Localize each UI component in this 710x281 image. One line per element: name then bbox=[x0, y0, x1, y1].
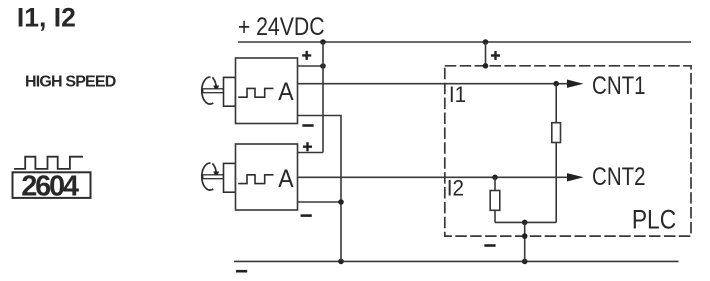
wire R2 upper lead from I2 node bbox=[494, 177, 496, 190]
node junction dot top rail / encoder supply bbox=[320, 39, 326, 45]
wire bottom return rail bbox=[234, 260, 679, 262]
encoder E2 rotation arrowhead bbox=[213, 172, 219, 179]
svg-text:CNT1: CNT1 bbox=[592, 71, 646, 99]
resistor R2 bbox=[490, 191, 500, 211]
wire encoder U2 minus stub bbox=[298, 201, 342, 203]
wire +24VDC top rail bbox=[238, 41, 691, 43]
resistor R1 bbox=[552, 123, 561, 143]
wire supply drop from top rail to U1/U2 plus bbox=[322, 42, 324, 153]
encoder E1 mounting block bbox=[224, 77, 236, 106]
encoder U2 pulse output symbol bbox=[238, 175, 273, 184]
svg-text:2604: 2604 bbox=[21, 171, 79, 203]
encoder E1 shaft rotation symbol bbox=[202, 77, 216, 104]
wire encoder U2 plus stub to supply drop bbox=[298, 152, 324, 154]
CNT1 label bbox=[592, 71, 646, 99]
encoder E1 rotation arrowhead bbox=[213, 86, 219, 93]
node junction dot I1 / R1 bbox=[553, 81, 559, 87]
wire U1 channel A output to PLC input I1 bbox=[298, 83, 570, 85]
wire U2 channel A output to PLC input I2 bbox=[298, 176, 570, 178]
arrowhead CNT1 bbox=[567, 80, 584, 88]
svg-text:I1, I2: I1, I2 bbox=[17, 3, 76, 33]
svg-text:HIGH SPEED: HIGH SPEED bbox=[25, 74, 116, 91]
minus label encoder U1 bbox=[302, 124, 313, 127]
svg-text:A: A bbox=[278, 78, 293, 106]
wire link R1/R2 bottoms bbox=[495, 221, 556, 223]
plus label encoder U2 supply bbox=[303, 142, 312, 151]
encoder E2 mounting block bbox=[224, 163, 236, 192]
encoder E2 shaft rotation symbol bbox=[202, 163, 216, 190]
input I2 label bbox=[447, 175, 464, 201]
svg-text:CNT2: CNT2 bbox=[592, 162, 646, 190]
PLC dashed enclosure bbox=[445, 66, 691, 236]
2604 module box bbox=[13, 172, 91, 198]
svg-text:A: A bbox=[278, 165, 293, 193]
+24VDC supply label bbox=[238, 13, 325, 41]
node junction dot U2 minus / return drop bbox=[338, 199, 344, 205]
node junction dot return drop at dashed edge bbox=[522, 233, 528, 239]
CNT2 label bbox=[592, 162, 646, 190]
node junction dot link wire / return drop bbox=[522, 220, 528, 226]
node junction dot I2 / R2 bbox=[492, 175, 498, 181]
svg-text:I2: I2 bbox=[447, 175, 464, 201]
wire PLC supply drop from top rail bbox=[485, 42, 487, 66]
encoder U2 channel A label bbox=[278, 165, 293, 193]
wire PLC return drop to bottom rail bbox=[524, 222, 526, 261]
svg-text:I1: I1 bbox=[449, 81, 466, 107]
encoder U2 body box bbox=[236, 144, 298, 210]
wire encoder U1 minus stub bbox=[298, 116, 342, 262]
encoder E2 shaft bar bbox=[203, 175, 224, 179]
encoder U1 channel A label bbox=[278, 78, 293, 106]
svg-text:+ 24VDC: + 24VDC bbox=[238, 13, 325, 41]
minus label PLC return bbox=[484, 244, 495, 247]
arrowhead CNT2 bbox=[567, 173, 584, 181]
node junction dot bottom rail / PLC return bbox=[522, 259, 528, 265]
wire R2 lower lead down to link wire bbox=[494, 210, 496, 222]
wire R1 lower lead down to link wire bbox=[555, 143, 557, 223]
svg-text:PLC: PLC bbox=[632, 206, 676, 235]
node junction dot top rail / PLC supply bbox=[483, 39, 489, 45]
plus label PLC supply bbox=[491, 51, 500, 60]
pulse waveform icon above 2604 box bbox=[14, 157, 83, 169]
minus label bottom rail bbox=[236, 270, 247, 273]
PLC label bbox=[632, 206, 676, 235]
input I1 label bbox=[449, 81, 466, 107]
node junction dot bottom rail / encoders return bbox=[338, 259, 344, 265]
wire R1 upper lead from I1 node bbox=[555, 84, 557, 123]
node junction dot PLC supply at dashed edge bbox=[483, 63, 489, 69]
node junction dot U1 plus / supply drop bbox=[320, 63, 326, 69]
encoder U1 body box bbox=[236, 58, 298, 124]
plus label encoder U1 supply bbox=[302, 51, 311, 60]
encoder U1 pulse output symbol bbox=[238, 88, 273, 97]
encoder E1 shaft bar bbox=[203, 89, 224, 93]
wire encoder U1 plus stub to supply node bbox=[298, 65, 324, 67]
minus label encoder U2 bbox=[301, 214, 312, 217]
